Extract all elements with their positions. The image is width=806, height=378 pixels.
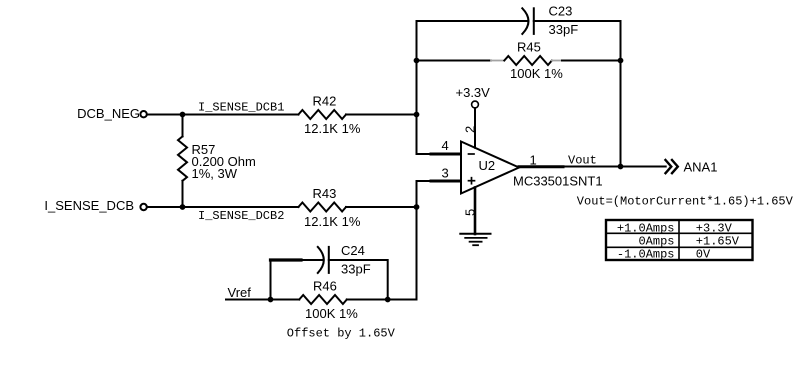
svg-text:33pF: 33pF (549, 22, 579, 37)
svg-text:Vref: Vref (228, 285, 252, 300)
svg-text:Vout=(MotorCurrent*1.65)+1.65V: Vout=(MotorCurrent*1.65)+1.65V (577, 195, 794, 209)
svg-text:33pF: 33pF (341, 262, 371, 277)
svg-text:1: 1 (530, 153, 537, 168)
svg-text:U2: U2 (479, 158, 496, 173)
svg-text:Offset by 1.65V: Offset by 1.65V (287, 327, 396, 341)
svg-text:100K 1%: 100K 1% (305, 306, 358, 321)
svg-text:+3.3V: +3.3V (696, 221, 733, 235)
svg-text:5: 5 (463, 209, 478, 216)
svg-text:I_SENSE_DCB1: I_SENSE_DCB1 (198, 101, 284, 115)
svg-text:R45: R45 (517, 40, 541, 55)
svg-text:R43: R43 (313, 186, 337, 201)
svg-text:3: 3 (442, 166, 449, 181)
svg-text:12.1K 1%: 12.1K 1% (304, 121, 361, 136)
svg-text:1%, 3W: 1%, 3W (192, 166, 238, 181)
svg-text:4: 4 (442, 138, 449, 153)
svg-text:I_SENSE_DCB: I_SENSE_DCB (44, 198, 134, 213)
svg-text:0V: 0V (696, 247, 711, 261)
svg-text:I_SENSE_DCB2: I_SENSE_DCB2 (198, 209, 284, 223)
svg-text:C24: C24 (341, 243, 365, 258)
svg-text:Vout: Vout (568, 154, 597, 168)
svg-text:+3.3V: +3.3V (456, 85, 491, 100)
svg-text:ANA1: ANA1 (684, 160, 718, 175)
svg-text:+1.0Amps: +1.0Amps (617, 221, 675, 235)
svg-text:MC33501SNT1: MC33501SNT1 (513, 174, 603, 189)
svg-text:R46: R46 (313, 279, 337, 294)
svg-text:2: 2 (462, 126, 477, 133)
svg-text:C23: C23 (549, 4, 573, 19)
svg-text:100K 1%: 100K 1% (510, 66, 563, 81)
svg-text:-1.0Amps: -1.0Amps (617, 247, 675, 261)
svg-text:DCB_NEG: DCB_NEG (77, 106, 140, 121)
svg-text:12.1K 1%: 12.1K 1% (304, 214, 361, 229)
svg-text:R42: R42 (313, 94, 337, 109)
